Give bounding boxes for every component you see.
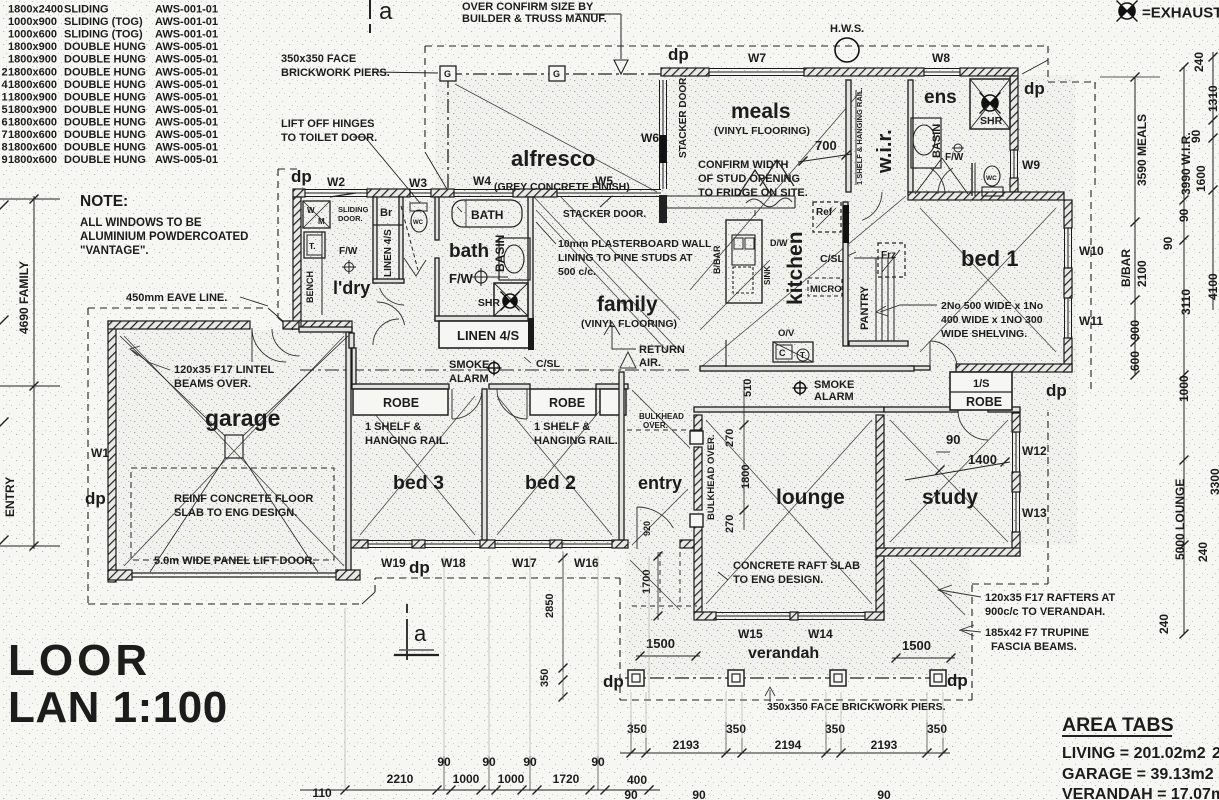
shower box bath — [494, 283, 528, 316]
svg-text:90: 90 — [1177, 208, 1191, 222]
svg-text:2: 2 — [1212, 745, 1219, 762]
svg-text:LINING TO PINE STUDS AT: LINING TO PINE STUDS AT — [558, 252, 693, 264]
svg-text:1310: 1310 — [1206, 85, 1219, 112]
svg-text:DOUBLE HUNG: DOUBLE HUNG — [64, 142, 146, 154]
eave line left l_dry — [278, 168, 300, 170]
svg-text:W11: W11 — [1079, 314, 1103, 328]
svg-text:=EXHAUST FA: =EXHAUST FA — [1142, 5, 1219, 22]
svg-text:W16: W16 — [574, 556, 599, 570]
svg-text:ALARM: ALARM — [449, 373, 489, 385]
wall: study right x1012 — [1012, 413, 1020, 432]
wall: garage bottom y570 — [108, 570, 132, 580]
bottom dim row B — [300, 789, 660, 791]
garage panel lift door lines — [132, 572, 336, 574]
linen 4/S box — [439, 321, 532, 348]
wir shelf line — [855, 90, 857, 185]
svg-text:W14: W14 — [808, 627, 833, 641]
svg-text:AWS-005-01: AWS-005-01 — [155, 41, 218, 53]
truss arrow top — [614, 60, 628, 74]
svg-text:SINK: SINK — [763, 266, 772, 285]
bulkhead dashes entry top — [627, 429, 694, 431]
svg-text:l'dry: l'dry — [333, 278, 370, 298]
hall ceiling dash-dot — [300, 369, 690, 371]
svg-text:AWS-001-01: AWS-001-01 — [155, 16, 218, 28]
wall: study bottom y548 — [876, 548, 1020, 556]
svg-text:G: G — [444, 69, 451, 79]
svg-text:Frz: Frz — [881, 250, 896, 261]
section marker a bottom — [406, 604, 408, 613]
svg-text:BASIN: BASIN — [493, 235, 507, 272]
svg-text:W15: W15 — [738, 627, 763, 641]
svg-text:SLIDING: SLIDING — [338, 205, 369, 214]
svg-text:bed 3: bed 3 — [393, 472, 444, 494]
svg-text:BENCH: BENCH — [305, 271, 315, 303]
svg-text:VERANDAH = 17.07m: VERANDAH = 17.07m — [1062, 786, 1219, 800]
svg-text:AWS-005-01: AWS-005-01 — [155, 54, 218, 66]
svg-text:350: 350 — [825, 722, 845, 736]
svg-text:C/SL: C/SL — [536, 358, 561, 370]
bath tub — [452, 200, 522, 227]
svg-text:a: a — [379, 0, 393, 25]
exhaust legend — [1117, 1, 1138, 22]
svg-text:F/W: F/W — [339, 246, 358, 257]
wall: top-left (l_dry/bath) y193 — [293, 189, 305, 197]
bulkhead squares lounge left — [690, 431, 703, 444]
svg-text:W17: W17 — [512, 556, 537, 570]
svg-text:AWS-005-01: AWS-005-01 — [155, 116, 218, 128]
svg-text:350: 350 — [726, 722, 746, 736]
wall: wc/bath divider — [435, 197, 439, 240]
svg-text:W6: W6 — [641, 131, 659, 145]
svg-text:HANGING RAIL.: HANGING RAIL. — [365, 435, 449, 447]
svg-text:1500: 1500 — [646, 636, 675, 651]
svg-text:W1: W1 — [91, 446, 109, 460]
svg-text:1700: 1700 — [641, 570, 653, 594]
svg-text:110: 110 — [312, 786, 332, 800]
svg-text:9: 9 — [2, 154, 8, 166]
svg-text:B/BAR: B/BAR — [1119, 249, 1133, 287]
svg-text:GARAGE = 39.13m2: GARAGE = 39.13m2 — [1062, 766, 1214, 783]
svg-text:TO ENG DESIGN.: TO ENG DESIGN. — [733, 574, 823, 586]
svg-text:2: 2 — [2, 66, 8, 78]
svg-text:LINEN 4/S: LINEN 4/S — [457, 328, 519, 343]
svg-text:F/W: F/W — [945, 152, 964, 163]
svg-text:2850: 2850 — [544, 594, 556, 618]
svg-text:OVER CONFIRM SIZE BY: OVER CONFIRM SIZE BY — [462, 1, 594, 13]
svg-text:90: 90 — [877, 788, 891, 800]
wall: l_dry/linen divider — [373, 197, 377, 283]
svg-text:CONFIRM WIDTH: CONFIRM WIDTH — [698, 159, 788, 171]
svg-text:900c/c TO VERANDAH.: 900c/c TO VERANDAH. — [985, 606, 1105, 618]
svg-text:400: 400 — [627, 773, 647, 787]
svg-text:a: a — [414, 621, 427, 646]
garage centre post — [225, 435, 243, 458]
svg-text:6: 6 — [2, 116, 8, 128]
svg-text:270: 270 — [724, 429, 736, 447]
bath fw — [475, 271, 487, 283]
wall: lounge left x694 — [694, 415, 702, 430]
svg-text:1800x600: 1800x600 — [8, 66, 57, 78]
svg-text:270: 270 — [724, 515, 736, 533]
smoke alarm family — [487, 361, 502, 376]
eave line bed1 right — [1048, 81, 1095, 83]
wc nook wall ens — [971, 163, 973, 196]
svg-text:verandah: verandah — [748, 645, 819, 662]
wall: wc niche bottom — [373, 279, 404, 283]
svg-text:bed 2: bed 2 — [525, 472, 576, 494]
svg-text:BATH: BATH — [471, 208, 503, 222]
svg-text:ALUMINIUM POWDERCOATED: ALUMINIUM POWDERCOATED — [80, 231, 248, 243]
svg-text:lounge: lounge — [776, 486, 845, 509]
svg-text:W13: W13 — [1022, 506, 1047, 520]
svg-text:SLIDING (TOG): SLIDING (TOG) — [64, 16, 143, 28]
svg-text:M: M — [318, 217, 325, 226]
ens wc pedestal — [982, 187, 1003, 196]
svg-text:AWS-005-01: AWS-005-01 — [155, 79, 218, 91]
svg-text:dp: dp — [1024, 79, 1045, 98]
ens wc — [984, 166, 1000, 186]
svg-text:SMOKE: SMOKE — [814, 379, 854, 391]
section marker a top — [369, 0, 371, 19]
svg-text:350: 350 — [927, 722, 947, 736]
svg-text:w.i.r.: w.i.r. — [874, 129, 896, 174]
wall: kitchen/hall bottom y364 — [700, 366, 914, 371]
svg-text:920: 920 — [642, 521, 652, 536]
svg-text:AWS-005-01: AWS-005-01 — [155, 154, 218, 166]
svg-text:W2: W2 — [327, 175, 345, 189]
svg-text:2100: 2100 — [1135, 260, 1149, 287]
svg-text:600: 600 — [1128, 351, 1142, 371]
svg-text:DOUBLE HUNG: DOUBLE HUNG — [64, 129, 146, 141]
svg-text:5.0m WIDE PANEL LIFT DOOR.: 5.0m WIDE PANEL LIFT DOOR. — [154, 555, 316, 567]
svg-text:3300: 3300 — [1208, 468, 1219, 495]
kitchen island — [726, 220, 762, 303]
svg-text:120x35 F17 RAFTERS AT: 120x35 F17 RAFTERS AT — [985, 592, 1115, 604]
svg-text:meals: meals — [731, 100, 791, 123]
pier box G1 — [440, 66, 456, 81]
svg-text:ENTRY: ENTRY — [3, 477, 17, 517]
svg-text:dp: dp — [291, 167, 312, 186]
svg-text:alfresco: alfresco — [511, 146, 595, 171]
svg-text:MICRO: MICRO — [810, 284, 842, 295]
ref dashed box — [813, 202, 841, 232]
svg-text:1: 1 — [2, 91, 8, 103]
svg-text:DOUBLE HUNG: DOUBLE HUNG — [64, 91, 146, 103]
ens basin counter — [911, 118, 941, 168]
eave corner diagonals top — [425, 152, 451, 196]
svg-text:garage: garage — [205, 405, 280, 431]
ens fw — [954, 144, 962, 152]
wall: garage left x108 — [108, 321, 116, 582]
svg-text:AWS-005-01: AWS-005-01 — [155, 91, 218, 103]
svg-text:DOUBLE HUNG: DOUBLE HUNG — [64, 54, 146, 66]
kitchen ceiling dashes — [843, 252, 856, 258]
wall: ens right x1010 — [1010, 76, 1018, 150]
svg-text:1800x600: 1800x600 — [8, 142, 57, 154]
svg-text:900: 900 — [1128, 320, 1142, 340]
wall: l_dry bottom y325 — [283, 321, 299, 329]
door: wc niche — [380, 288, 404, 305]
right dim chain A x1135 — [1134, 77, 1136, 375]
svg-text:SMOKE: SMOKE — [449, 359, 489, 371]
svg-text:W18: W18 — [441, 556, 466, 570]
svg-text:SHR: SHR — [980, 115, 1003, 127]
svg-text:1800x900: 1800x900 — [8, 91, 57, 103]
svg-text:W3: W3 — [409, 176, 427, 190]
svg-text:1800x600: 1800x600 — [8, 129, 57, 141]
svg-text:DOUBLE HUNG: DOUBLE HUNG — [64, 104, 146, 116]
svg-text:entry: entry — [638, 473, 682, 493]
svg-text:(VINYL FLOORING): (VINYL FLOORING) — [581, 318, 677, 330]
bottom dim row A (verandah piers) — [620, 752, 950, 754]
svg-text:bed 1: bed 1 — [961, 246, 1018, 271]
svg-text:W12: W12 — [1022, 444, 1047, 458]
robe box bed3 — [353, 389, 448, 415]
svg-text:1500: 1500 — [902, 638, 931, 653]
svg-text:240: 240 — [1192, 52, 1206, 72]
svg-text:1800x600: 1800x600 — [8, 116, 57, 128]
svg-text:AWS-001-01: AWS-001-01 — [155, 29, 218, 41]
svg-text:STACKER DOOR.: STACKER DOOR. — [563, 209, 646, 220]
svg-text:RETURN: RETURN — [639, 344, 685, 356]
svg-text:450mm EAVE LINE.: 450mm EAVE LINE. — [126, 292, 227, 304]
svg-text:BULKHEAD OVER.: BULKHEAD OVER. — [706, 434, 717, 520]
door: wir — [862, 192, 882, 220]
door: bed2 — [497, 389, 527, 419]
svg-text:dp: dp — [603, 672, 624, 691]
svg-text:1000: 1000 — [1177, 375, 1191, 402]
svg-text:study: study — [922, 486, 978, 509]
wall: bath left lower — [435, 258, 439, 321]
svg-text:LIVING = 201.02m2: LIVING = 201.02m2 — [1062, 745, 1206, 762]
svg-text:BUILDER & TRUSS MANUF.: BUILDER & TRUSS MANUF. — [462, 13, 607, 25]
l_dry fw — [345, 263, 354, 272]
svg-text:1000: 1000 — [453, 772, 480, 786]
cupboard C box — [773, 342, 813, 362]
svg-text:1800x900: 1800x900 — [8, 104, 57, 116]
svg-text:90: 90 — [1161, 236, 1175, 250]
door: entry porch (l_dry exterior) — [272, 329, 299, 356]
svg-text:dp: dp — [85, 489, 106, 508]
svg-text:1800x900: 1800x900 — [8, 41, 57, 53]
svg-text:OF STUD OPENING: OF STUD OPENING — [698, 173, 800, 185]
svg-text:T: T — [800, 351, 805, 360]
svg-text:DOUBLE HUNG: DOUBLE HUNG — [64, 154, 146, 166]
br closet — [398, 197, 400, 225]
door: bed1 — [930, 341, 957, 368]
wall: meals/ens top y68 — [661, 68, 709, 76]
svg-text:WIDE SHELVING.: WIDE SHELVING. — [941, 328, 1027, 340]
wall: bath bottom y316 — [435, 316, 533, 321]
wall: garage top y321 — [108, 321, 250, 329]
svg-text:T.: T. — [309, 241, 316, 251]
svg-text:"VANTAGE".: "VANTAGE". — [80, 245, 149, 257]
ens shower box — [970, 79, 1010, 129]
verandah pier line — [625, 677, 968, 679]
svg-text:WC: WC — [413, 220, 424, 226]
svg-text:AWS-005-01: AWS-005-01 — [155, 142, 218, 154]
svg-text:H.W.S.: H.W.S. — [830, 23, 864, 35]
wall: wir/ens divider x908 — [908, 80, 913, 192]
bed2/entry divider x619 — [619, 372, 624, 540]
svg-text:FASCIA BEAMS.: FASCIA BEAMS. — [991, 641, 1077, 653]
svg-text:dp: dp — [1046, 381, 1067, 400]
svg-text:ALARM: ALARM — [814, 391, 854, 403]
l_dry wm box — [303, 201, 330, 228]
pantry left wall — [843, 202, 848, 346]
door: ens double — [915, 158, 942, 194]
robe box bed2 — [530, 389, 596, 415]
svg-text:1800x600: 1800x600 — [8, 79, 57, 91]
svg-text:90: 90 — [946, 432, 960, 447]
door: l_dry sliding — [330, 193, 356, 197]
svg-text:4690 FAMILY: 4690 FAMILY — [17, 261, 31, 334]
hws circle — [835, 38, 859, 62]
bed3 robe jog wall — [352, 348, 356, 384]
right dim chain B x1184 — [1183, 67, 1185, 634]
wall: bed2/3 front y540 — [346, 540, 368, 548]
svg-text:1000x900: 1000x900 — [8, 16, 57, 28]
stacker door chevrons — [738, 170, 772, 196]
svg-text:5000 LOUNGE: 5000 LOUNGE — [1173, 479, 1187, 560]
bed2 top wall — [489, 384, 530, 389]
alfresco right wall (stacker door) x659 — [660, 80, 667, 189]
svg-text:O/V: O/V — [778, 328, 795, 339]
door: hall/family by linen — [377, 302, 405, 325]
pantry bottom wall — [849, 341, 908, 346]
wall: entry front y540 — [680, 540, 694, 548]
svg-text:REINF CONCRETE FLOOR: REINF CONCRETE FLOOR — [174, 493, 313, 505]
svg-text:B/BAR: B/BAR — [712, 245, 722, 274]
svg-text:120x35 F17 LINTEL: 120x35 F17 LINTEL — [174, 364, 275, 376]
svg-text:W5: W5 — [595, 174, 613, 188]
svg-text:7: 7 — [2, 129, 8, 141]
stacker door black panels — [660, 135, 666, 163]
svg-text:WC: WC — [986, 175, 997, 182]
verandah pier — [830, 670, 846, 686]
svg-text:1800x2400: 1800x2400 — [8, 4, 63, 16]
svg-text:350: 350 — [539, 669, 551, 687]
door: study — [958, 410, 988, 440]
svg-text:DOUBLE HUNG: DOUBLE HUNG — [64, 79, 146, 91]
svg-text:BEAMS OVER.: BEAMS OVER. — [174, 378, 251, 390]
1/S robe box (study) — [950, 372, 1012, 410]
kitchen bench (north, by meals) — [667, 195, 795, 197]
svg-text:family: family — [597, 293, 658, 316]
alfresco pier line — [448, 73, 661, 75]
front eave line bed2/3 — [375, 577, 620, 579]
svg-text:2210: 2210 — [387, 772, 414, 786]
svg-text:90: 90 — [1189, 129, 1203, 143]
door: front entry — [637, 507, 673, 528]
svg-text:Ref: Ref — [816, 207, 833, 218]
micro dashed — [808, 278, 842, 296]
bed3/bed2 divider x482 — [482, 389, 487, 540]
wall: lounge+study top y407 — [694, 407, 884, 412]
svg-text:kitchen: kitchen — [784, 231, 807, 305]
svg-text:dp: dp — [668, 45, 689, 64]
svg-text:G: G — [553, 69, 560, 79]
svg-text:AWS-005-01: AWS-005-01 — [155, 129, 218, 141]
svg-text:500 c/c.: 500 c/c. — [558, 266, 596, 278]
svg-text:1000: 1000 — [498, 772, 525, 786]
svg-text:F/W: F/W — [449, 271, 474, 286]
svg-text:1 SHELF &: 1 SHELF & — [534, 421, 590, 433]
wall: bath right x528 — [528, 197, 533, 321]
svg-text:PANTRY: PANTRY — [859, 285, 871, 330]
svg-text:SLIDING: SLIDING — [64, 4, 109, 16]
svg-text:5: 5 — [2, 104, 8, 116]
svg-text:400 WIDE x 1NO 300: 400 WIDE x 1NO 300 — [941, 314, 1043, 326]
eave line top (alfresco/meals) — [425, 45, 1048, 47]
svg-text:2193: 2193 — [871, 738, 898, 752]
svg-text:HANGING RAIL.: HANGING RAIL. — [534, 435, 618, 447]
svg-text:10mm PLASTERBOARD WALL: 10mm PLASTERBOARD WALL — [558, 238, 712, 250]
svg-text:ens: ens — [924, 87, 957, 108]
door: bed3 — [452, 389, 482, 419]
wall: meals/wir divider x846 — [846, 80, 851, 192]
wall: bed3 left / garage right upper — [349, 333, 354, 348]
garage door arc (top wall) — [252, 328, 286, 362]
l_dry tub box — [304, 232, 325, 258]
svg-text:ROBE: ROBE — [549, 396, 585, 410]
svg-text:bath: bath — [449, 241, 489, 262]
svg-text:NOTE:: NOTE: — [80, 193, 128, 210]
smoke alarm hall2 — [793, 381, 808, 396]
svg-text:3590 MEALS: 3590 MEALS — [1135, 114, 1149, 186]
svg-text:4100: 4100 — [1206, 273, 1219, 300]
svg-text:350x350 FACE BRICKWORK PIERS.: 350x350 FACE BRICKWORK PIERS. — [767, 701, 946, 713]
svg-text:2193: 2193 — [673, 738, 700, 752]
garage inner dashed slab — [131, 468, 334, 560]
svg-text:BULKHEAD: BULKHEAD — [639, 412, 684, 421]
svg-text:240: 240 — [1196, 542, 1210, 562]
wall: garage right x346 — [346, 331, 351, 570]
svg-text:2No 500 WIDE x 1No: 2No 500 WIDE x 1No — [941, 300, 1043, 312]
svg-text:SLAB TO ENG DESIGN.: SLAB TO ENG DESIGN. — [174, 507, 297, 519]
wall: bed1 bottom y364 — [956, 364, 1072, 372]
svg-text:W10: W10 — [1079, 244, 1104, 258]
svg-text:AWS-005-01: AWS-005-01 — [155, 66, 218, 78]
svg-text:dp: dp — [947, 671, 968, 690]
svg-text:1/S: 1/S — [973, 378, 990, 390]
svg-text:240: 240 — [1157, 614, 1171, 634]
svg-text:W19: W19 — [381, 556, 406, 570]
svg-text:1 SHELF & HANGING RAIL.: 1 SHELF & HANGING RAIL. — [855, 87, 864, 185]
bed3 top wall + robe — [352, 384, 449, 389]
wc (main) — [411, 210, 427, 232]
svg-text:350x350 FACE: 350x350 FACE — [281, 53, 356, 65]
svg-text:CONCRETE RAFT SLAB: CONCRETE RAFT SLAB — [733, 560, 860, 572]
verandah pier — [628, 670, 644, 686]
svg-text:BRICKWORK PIERS.: BRICKWORK PIERS. — [281, 67, 390, 79]
svg-text:LINEN 4/S: LINEN 4/S — [383, 229, 394, 277]
svg-text:8: 8 — [2, 142, 8, 154]
verandah pier — [930, 670, 946, 686]
svg-text:90: 90 — [624, 788, 638, 800]
svg-text:TO TOILET DOOR.: TO TOILET DOOR. — [281, 132, 377, 144]
svg-text:SHR: SHR — [478, 297, 501, 309]
svg-text:1800x600: 1800x600 — [8, 154, 57, 166]
svg-text:W7: W7 — [748, 51, 766, 65]
svg-text:ROBE: ROBE — [966, 395, 1002, 409]
wall: l_dry left x293 — [293, 197, 301, 329]
l_dry bench — [321, 232, 323, 315]
svg-text:DOUBLE HUNG: DOUBLE HUNG — [64, 66, 146, 78]
svg-text:1800: 1800 — [740, 465, 752, 489]
svg-text:LIFT OFF HINGES: LIFT OFF HINGES — [281, 118, 375, 130]
svg-text:AWS-001-01: AWS-001-01 — [155, 4, 218, 16]
